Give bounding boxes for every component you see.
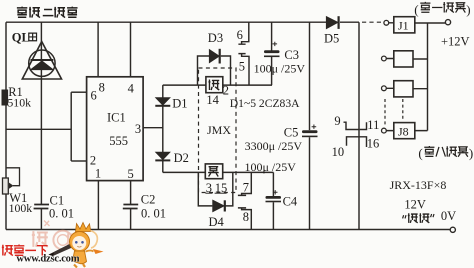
svg-text:J1: J1: [398, 19, 409, 33]
svg-text:1: 1: [95, 167, 101, 181]
svg-text:www.dzsc.com: www.dzsc.com: [16, 254, 79, 265]
watermark mascot body: [73, 251, 87, 264]
relay contact 9-11 brackets: [344, 122, 367, 129]
char 头: [458, 147, 469, 157]
relay coil box (xi): [206, 77, 223, 93]
watermark faint char 片: [67, 233, 81, 246]
svg-text:2: 2: [223, 84, 229, 98]
svg-text:(: (: [414, 2, 418, 17]
wire top rail: [6, 21, 359, 23]
svg-text:0. 01: 0. 01: [141, 206, 166, 220]
dashed link D5 to J1 plug: [362, 21, 383, 23]
wire J1 row stub: [389, 22, 445, 24]
connector J8 box: [394, 123, 415, 139]
capacitor C3 electrolytic: [264, 50, 280, 53]
svg-text:555: 555: [109, 134, 128, 148]
wire relay coil row (fang): [163, 171, 274, 173]
wire divider horizontal to pin2/6 node: [6, 128, 71, 130]
svg-text:D5: D5: [324, 31, 339, 45]
quote right: [431, 214, 434, 217]
watermark mascot tail curl: [91, 231, 98, 249]
wire pin 3: [143, 127, 163, 129]
wire pin 8: [97, 22, 99, 77]
svg-text:16: 16: [367, 136, 380, 150]
svg-text:C3: C3: [284, 48, 299, 62]
contact circle J8: [382, 128, 387, 133]
wire C3 branch: [271, 22, 273, 85]
relay contact 7-8: [238, 172, 251, 229]
svg-text:QL: QL: [12, 30, 30, 44]
relay contact 6-5: [238, 22, 249, 85]
watermark red char 库: [14, 245, 25, 256]
title char 二: [43, 10, 54, 16]
svg-text:2: 2: [90, 154, 96, 168]
diode D3: [209, 50, 219, 63]
wire J2 row stub: [386, 58, 427, 61]
wire right bus: [427, 23, 429, 131]
wire pin6-pin2 tie vertical: [70, 92, 72, 161]
dashed column plug boxes: [402, 99, 404, 121]
dashed relay outline box: [199, 68, 237, 193]
svg-text:14: 14: [206, 93, 219, 107]
relay common bar: [358, 22, 360, 229]
svg-text:0V: 0V: [441, 209, 456, 223]
svg-text:510k: 510k: [7, 95, 31, 109]
svg-text:5: 5: [128, 167, 134, 181]
label char 型: [29, 33, 37, 41]
watermark faint char 找: [32, 221, 81, 250]
svg-text:C1: C1: [50, 194, 65, 208]
svg-text:10: 10: [332, 145, 345, 159]
contact circle J2: [382, 56, 387, 61]
svg-text:11: 11: [367, 118, 379, 132]
capacitor C4 electrolytic: [266, 196, 282, 199]
svg-text:IC1: IC1: [107, 111, 126, 125]
watermark brush: [49, 243, 76, 256]
relay coil box (fang): [205, 164, 222, 179]
wire D3 bypass branch: [198, 56, 231, 85]
sensor diode QL symbol triangle: [22, 42, 61, 80]
connector J3 box: [394, 81, 413, 97]
watermark mascot crown: [76, 223, 91, 232]
connector J2 box: [394, 51, 413, 67]
svg-text:100k: 100k: [9, 201, 33, 215]
char 一: [432, 6, 442, 8]
svg-text:100μ /25V: 100μ /25V: [254, 61, 306, 75]
diode D4: [213, 200, 225, 212]
char 搭: [408, 213, 418, 223]
watermark mascot arm with brush: [86, 251, 94, 252]
watermark red char 一: [25, 249, 36, 251]
underline pin 15 coil: [215, 192, 227, 194]
wire left rail: [5, 22, 7, 229]
wire pin 4: [130, 22, 132, 77]
svg-text:3300μ /25V: 3300μ /25V: [245, 139, 303, 153]
diode D1: [156, 98, 170, 106]
svg-text:12V: 12V: [404, 198, 426, 212]
svg-text:+12V: +12V: [441, 34, 470, 48]
svg-text:(: (: [418, 146, 422, 161]
wire J8 row stub: [386, 130, 427, 132]
svg-text:D1: D1: [172, 97, 187, 111]
svg-text:J8: J8: [398, 125, 409, 139]
relay contact 10-16 brackets: [347, 137, 367, 147]
svg-text:7: 7: [243, 181, 249, 195]
terminal +12V: [445, 20, 450, 25]
resistor R1: [2, 90, 8, 105]
capacitor C2: [123, 205, 138, 209]
svg-text:C2: C2: [141, 193, 156, 207]
wire bottom rail: [6, 229, 450, 231]
char 插: [446, 146, 457, 156]
contact circle J3: [382, 86, 387, 91]
char 插: [443, 2, 454, 12]
terminal 0V: [450, 227, 455, 232]
wire D4 bypass branch: [198, 172, 233, 206]
capacitor C5 electrolytic: [302, 130, 318, 133]
svg-text:8: 8: [99, 81, 105, 95]
svg-text:C5: C5: [284, 125, 299, 139]
char 头: [455, 3, 466, 13]
capacitor C1: [34, 205, 49, 209]
svg-text:9: 9: [334, 114, 340, 128]
dashed column plug circles: [384, 99, 386, 127]
svg-text:JMX: JMX: [207, 123, 231, 137]
svg-text:8: 8: [243, 210, 249, 224]
quote left: [403, 215, 406, 218]
svg-text:D2: D2: [174, 151, 189, 165]
title char 温: [29, 7, 40, 18]
svg-text:0. 01: 0. 01: [49, 206, 74, 220]
wire pin 1: [97, 181, 99, 230]
wire C5 branch: [309, 22, 311, 229]
sensor diode inside QL: [31, 59, 54, 61]
watermark mascot head: [70, 232, 90, 252]
wire D1-D2 chain vertical: [162, 85, 164, 172]
svg-text:D3: D3: [208, 31, 223, 45]
wire C4 branch: [272, 172, 274, 229]
coil char 吸: [208, 79, 219, 90]
underline pin 3 coil: [205, 192, 212, 194]
char 第: [424, 146, 434, 156]
svg-text:JRX-13F×8: JRX-13F×8: [390, 178, 447, 192]
char 第: [420, 2, 465, 13]
contact circle J1: [384, 20, 389, 25]
wire QL branch vertical: [40, 22, 42, 229]
svg-text:6: 6: [237, 28, 243, 42]
wire pin 2: [71, 160, 86, 162]
coil char 放: [208, 167, 219, 177]
watermark ring logo: [53, 231, 72, 250]
connector J1 box: [394, 17, 415, 33]
svg-text:C4: C4: [283, 194, 298, 208]
wire pin 5 / C2 branch: [130, 181, 132, 230]
sensor diode QL symbol circle: [29, 50, 55, 76]
diode D5: [326, 17, 338, 29]
svg-text:6: 6: [91, 89, 97, 103]
title char 管: [67, 7, 77, 18]
svg-text:): ): [466, 2, 470, 17]
op-amp IC1 555 box: [87, 77, 144, 181]
svg-text:4: 4: [128, 81, 135, 95]
svg-text:100μ /25V: 100μ /25V: [245, 160, 297, 174]
wire relay coil row (xi): [163, 84, 272, 86]
watermark red char 维: [2, 245, 48, 256]
svg-text:3: 3: [135, 122, 141, 136]
char 八: [436, 147, 445, 157]
title char 感: [17, 7, 78, 18]
svg-text:D4: D4: [209, 215, 225, 229]
wire pin 6: [71, 91, 86, 93]
diode D2: [156, 152, 170, 160]
svg-text:5: 5: [239, 59, 245, 73]
svg-text:): ): [469, 146, 473, 161]
wire J3 row stub: [386, 87, 427, 89]
potentiometer W1: [3, 168, 20, 194]
char 铁: [419, 213, 429, 223]
svg-text:D1~5 2CZ83A: D1~5 2CZ83A: [230, 97, 300, 110]
title char 极: [54, 7, 65, 18]
watermark red char 下: [37, 246, 48, 256]
